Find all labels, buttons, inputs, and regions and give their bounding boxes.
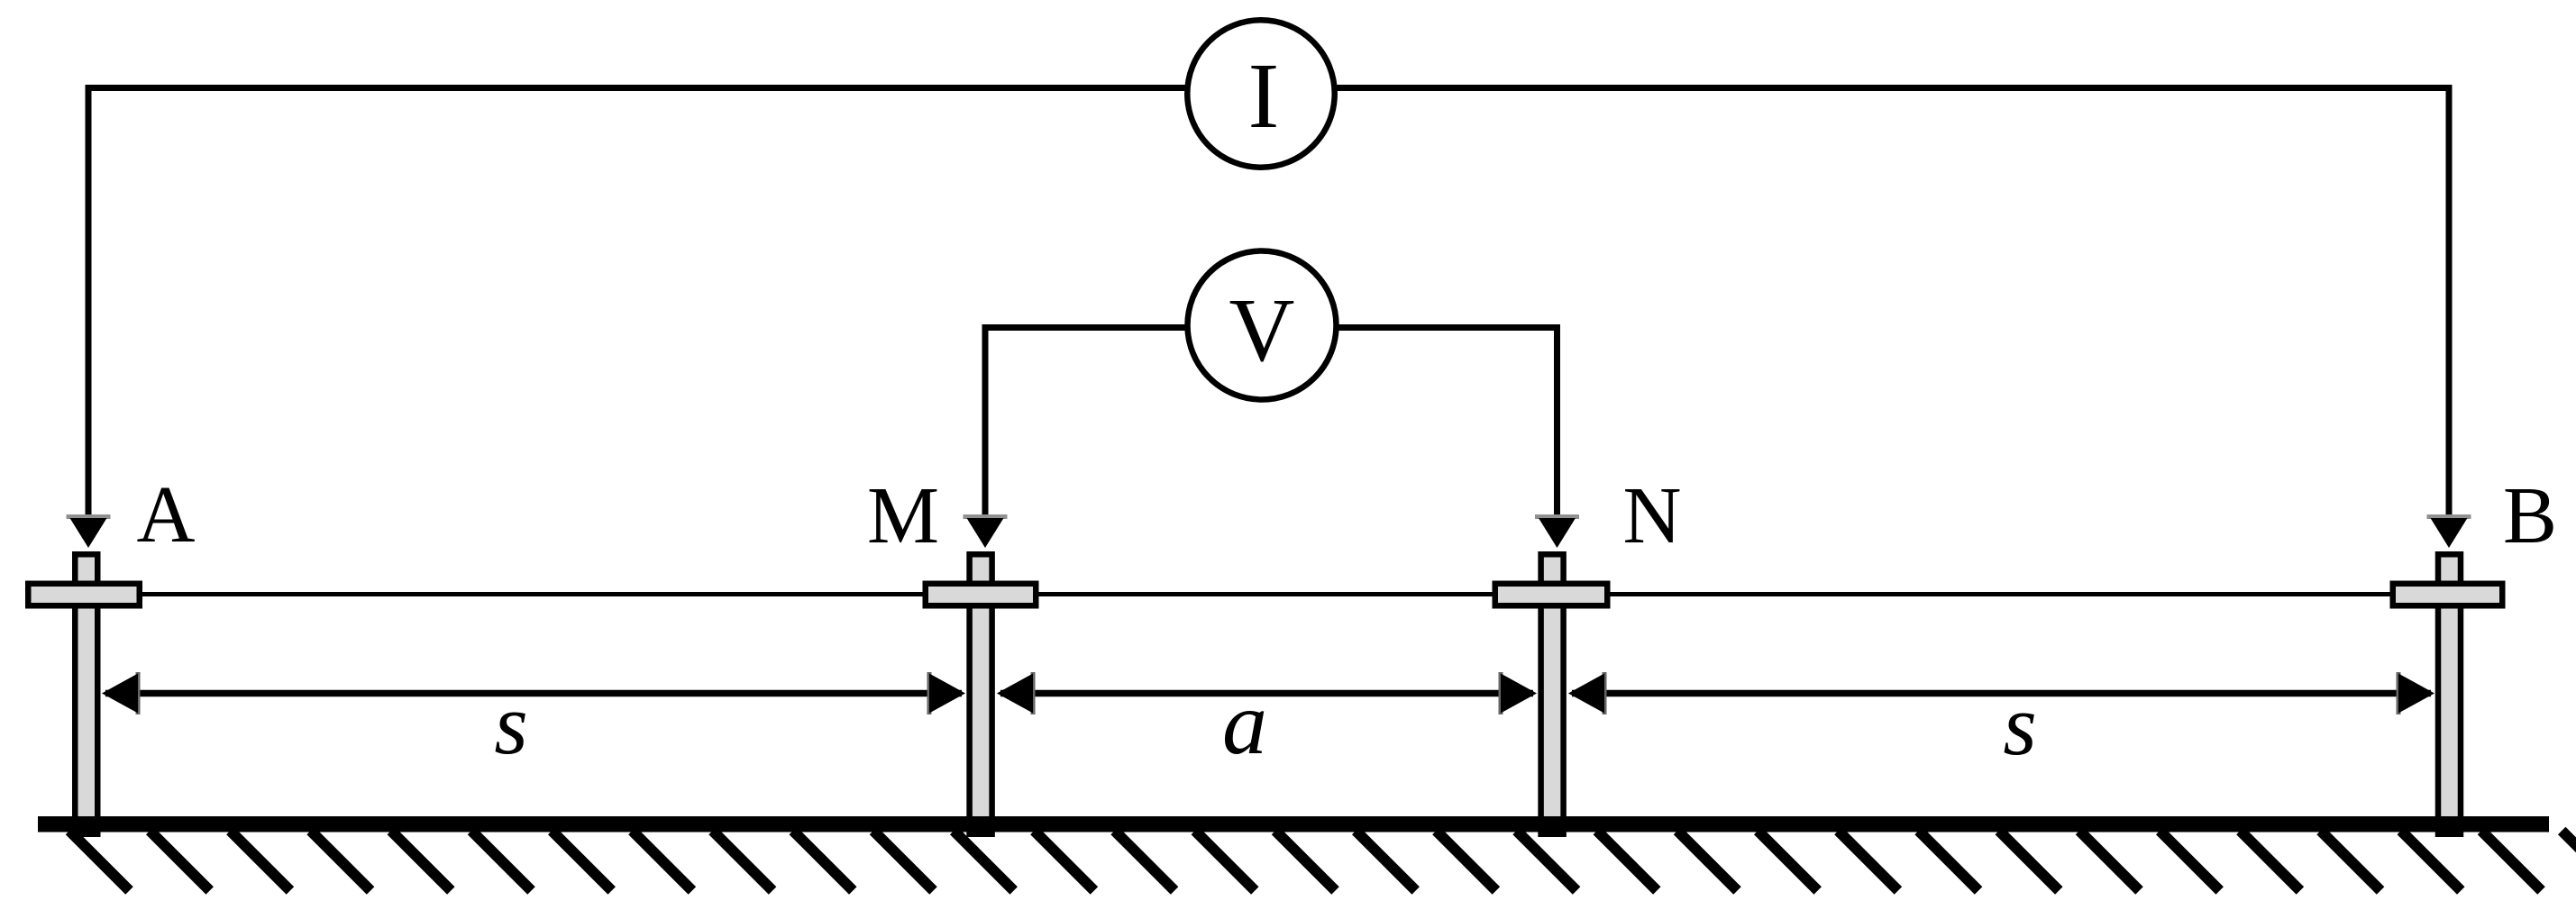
svg-text:V: V	[1229, 279, 1295, 380]
svg-text:I: I	[1248, 44, 1280, 148]
wire: potential loop from electrode M up, across through voltmeter, down to electrode N	[985, 328, 1557, 516]
arrowhead onto electrode M	[964, 514, 1008, 548]
svg-text:A: A	[137, 470, 196, 560]
voltmeter V (circle meter)	[1188, 251, 1337, 400]
ground surface line	[38, 816, 2549, 833]
arrowhead onto electrode A	[67, 514, 111, 548]
svg-text:s: s	[494, 676, 527, 772]
wire: thin surface line linking electrode caps	[86, 592, 2448, 596]
svg-text:N: N	[1623, 471, 1682, 560]
svg-text:s: s	[2003, 677, 2036, 773]
wire: current loop from electrode A up, across top through ammeter, down to electrode B	[88, 88, 2449, 516]
electrode A (stake)	[28, 554, 140, 834]
svg-text:a: a	[1222, 673, 1267, 773]
arrowhead onto electrode N	[1535, 514, 1579, 548]
svg-text:B: B	[2503, 471, 2557, 560]
dimension arrow s (A to M)	[102, 672, 965, 714]
ground hatching	[69, 831, 2576, 891]
electrode N (stake)	[1495, 554, 1608, 834]
electrode B (stake)	[2393, 554, 2503, 834]
dimension arrow s (N to B)	[1568, 672, 2434, 714]
electrode M (stake)	[926, 554, 1037, 834]
svg-text:M: M	[867, 471, 939, 560]
dimension arrow a (M to N)	[997, 672, 1537, 714]
arrowhead onto electrode B	[2427, 514, 2471, 548]
ammeter I (circle meter)	[1187, 20, 1335, 168]
